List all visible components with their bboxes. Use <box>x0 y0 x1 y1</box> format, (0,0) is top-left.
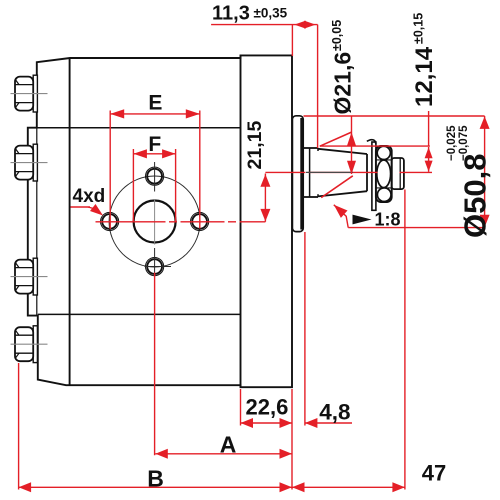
svg-text:1:8: 1:8 <box>375 210 401 230</box>
svg-text:22,6: 22,6 <box>246 395 289 420</box>
svg-text:±0,15: ±0,15 <box>412 13 426 44</box>
svg-text:Ø21,6: Ø21,6 <box>330 52 356 115</box>
svg-text:12,14: 12,14 <box>411 46 438 107</box>
svg-text:21,15: 21,15 <box>244 121 266 170</box>
svg-text:4,8: 4,8 <box>319 400 350 425</box>
svg-text:B: B <box>147 466 164 492</box>
svg-text:±0,35: ±0,35 <box>254 6 288 21</box>
svg-text:F: F <box>148 133 161 156</box>
svg-text:±0,05: ±0,05 <box>330 20 344 51</box>
svg-text:−0,025: −0,025 <box>446 125 458 161</box>
svg-text:−0,075: −0,075 <box>458 125 470 161</box>
svg-text:A: A <box>220 432 237 458</box>
svg-text:47: 47 <box>422 461 446 486</box>
svg-text:E: E <box>148 92 162 115</box>
svg-text:11,3: 11,3 <box>212 3 250 25</box>
svg-text:Ø50,8: Ø50,8 <box>457 154 492 238</box>
svg-text:4xd: 4xd <box>73 186 106 207</box>
